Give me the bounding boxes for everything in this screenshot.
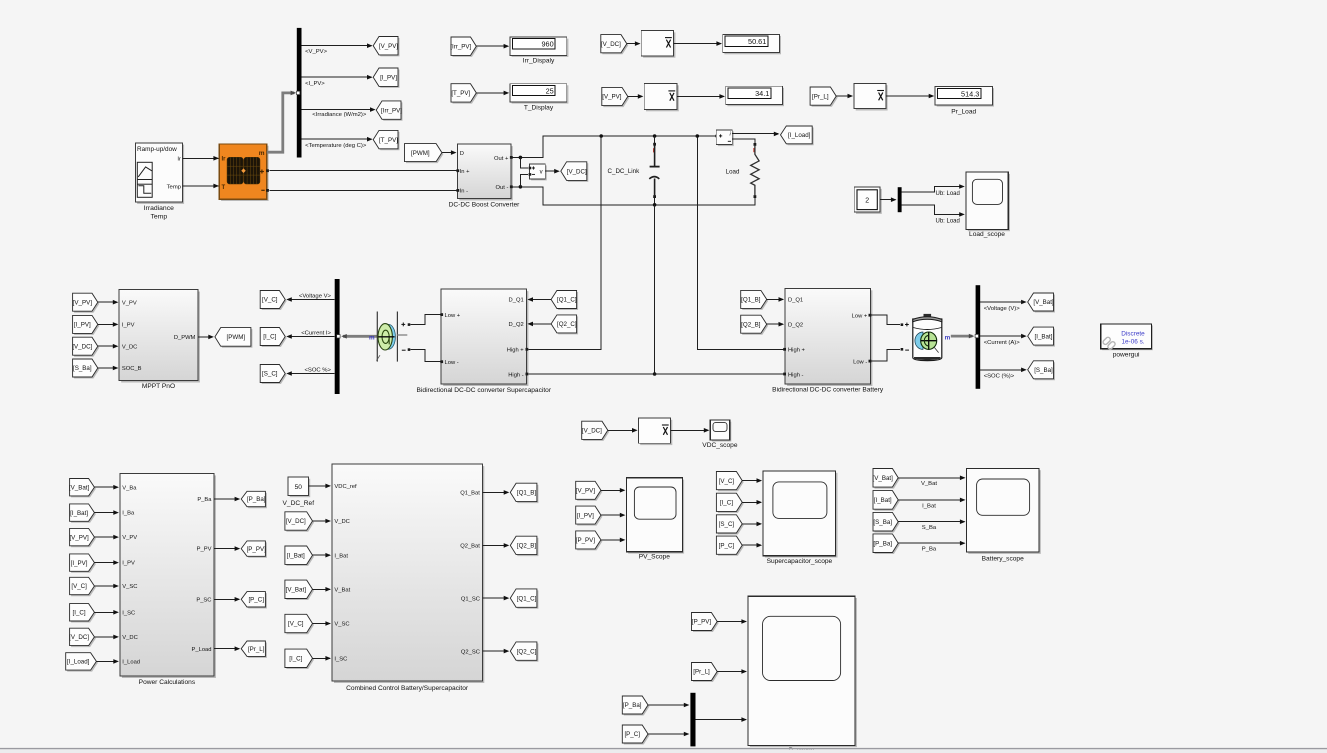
constant 50 V_DC_Ref <box>283 477 315 507</box>
svg-text:[I_Load]: [I_Load] <box>788 132 811 139</box>
from tag [S_C] to Supercapacitor_scope <box>716 515 743 535</box>
from tag [I_Bat] to Power Calculations <box>70 504 96 523</box>
svg-text:<Irradiance (W/m2)>: <Irradiance (W/m2)> <box>312 112 367 118</box>
wire Q1_C to D_Q1 <box>527 297 551 302</box>
wire Temp to PV array <box>182 184 219 189</box>
svg-text:[V_DC]: [V_DC] <box>69 634 89 641</box>
mux P_Ba P_C <box>690 693 695 747</box>
wire <box>482 543 509 548</box>
svg-text:50: 50 <box>295 484 303 491</box>
from tag [I_PV] to PV_Scope <box>576 506 603 525</box>
from tag [I_C] to Supercapacitor_scope <box>716 493 743 513</box>
svg-text:D_Q2: D_Q2 <box>509 322 524 328</box>
svg-text:V_SC: V_SC <box>122 584 137 590</box>
block DC-DC Boost Converter <box>449 144 521 208</box>
wire <box>94 610 119 615</box>
svg-text:Temp: Temp <box>167 184 182 190</box>
wire <box>98 366 119 371</box>
wire <box>94 485 119 490</box>
svg-text:[T_PV]: [T_PV] <box>379 137 398 144</box>
svg-text:<I_PV>: <I_PV> <box>305 81 325 87</box>
svg-text:[Pr_L]: [Pr_L] <box>812 93 829 100</box>
svg-text:[P_C]: [P_C] <box>248 597 264 604</box>
goto tag [Q1_C] <box>510 589 538 609</box>
svg-text:Out -: Out - <box>496 185 509 191</box>
from tag [Q1_C] <box>551 291 578 311</box>
svg-text:Out +: Out + <box>494 156 509 162</box>
svg-text:DC-DC Boost Converter: DC-DC Boost Converter <box>449 201 521 208</box>
svg-text:Irradiance: Irradiance <box>144 205 174 212</box>
goto tag [S_Ba] <box>1028 361 1055 381</box>
svg-text:[I_C]: [I_C] <box>720 500 733 507</box>
wire to mean <box>627 41 641 46</box>
svg-text:[V_C]: [V_C] <box>71 583 87 590</box>
from tag [P_PV] to P_scope <box>692 613 719 633</box>
svg-text:[P_C]: [P_C] <box>624 731 640 738</box>
svg-text:[I_C]: [I_C] <box>289 656 302 663</box>
goto tag [V_C] <box>260 291 287 311</box>
wire PWM to D input <box>442 150 457 155</box>
svg-text:Bidirectional DC-DC converter: Bidirectional DC-DC converter Battery <box>772 387 884 394</box>
supercap - terminal <box>402 348 411 351</box>
from tag [S_Ba] to Battery_scope <box>873 512 900 532</box>
svg-text:m: m <box>369 335 375 342</box>
svg-text:S_Ba: S_Ba <box>922 525 937 531</box>
wire <box>313 656 332 661</box>
from tag [I_C] to Power Calculations <box>70 604 96 623</box>
goto tag [Q2_B] <box>510 536 538 556</box>
wire <box>482 596 509 601</box>
svg-text:I_SC: I_SC <box>334 657 347 663</box>
svg-text:[V_PV]: [V_PV] <box>69 534 89 541</box>
block Power Calculations <box>120 473 216 686</box>
wire bus to S_Ba goto <box>980 368 1026 380</box>
goto tag [P_Ba] <box>241 491 267 508</box>
svg-text:High +: High + <box>788 348 806 354</box>
svg-text:V_DC: V_DC <box>334 519 349 525</box>
svg-text:[S_C]: [S_C] <box>262 371 278 378</box>
wire current sensor to load resistor <box>732 139 755 143</box>
svg-text:[Pr_L]: [Pr_L] <box>248 646 265 653</box>
svg-text:Q1_Bat: Q1_Bat <box>460 491 480 497</box>
svg-text:High +: High + <box>507 348 525 354</box>
svg-text:SOC_B: SOC_B <box>122 366 142 372</box>
supercap + terminal <box>401 323 410 327</box>
svg-text:514.3: 514.3 <box>961 89 979 98</box>
svg-text:[Q2_B]: [Q2_B] <box>517 543 537 550</box>
wire <box>94 584 119 589</box>
svg-text:VDC_scope: VDC_scope <box>702 442 738 449</box>
wire supercap - to Low- <box>410 350 440 362</box>
svg-text:V_PV: V_PV <box>122 300 137 306</box>
wire battery Low+ to battery + <box>871 315 900 325</box>
wire Out- to DC bus bottom rail <box>513 185 756 205</box>
wire battery High+ to DC bus <box>696 134 785 349</box>
svg-text:[P_PV]: [P_PV] <box>247 546 267 553</box>
wire bus to T_PV goto <box>302 137 373 149</box>
svg-text:V_SC: V_SC <box>334 622 349 628</box>
wire <box>717 669 747 674</box>
svg-text:[I_C]: [I_C] <box>263 334 276 341</box>
wire to T display <box>476 91 509 96</box>
wire to Irr display <box>476 44 509 49</box>
scope Supercapacitor_scope <box>763 471 837 565</box>
svg-text:[Q1_C]: [Q1_C] <box>517 595 537 602</box>
svg-text:[Irr_PV]: [Irr_PV] <box>381 107 402 114</box>
from tag [V_Bat] to Power Calculations <box>69 479 96 498</box>
from tag [V_PV] mean row <box>602 87 630 107</box>
wire demux to Load_scope input 1 <box>902 184 965 197</box>
svg-text:[V_PV]: [V_PV] <box>379 43 399 50</box>
svg-text:<SOC (%)>: <SOC (%)> <box>984 374 1015 380</box>
from tag [PWM] <box>405 144 444 164</box>
wire S_Ba <box>898 519 965 531</box>
svg-text:[S_Ba]: [S_Ba] <box>873 519 892 526</box>
from tag [V_DC] to Power Calculations <box>69 628 96 647</box>
from tag [P_C] to Supercapacitor_scope <box>716 536 743 556</box>
svg-text:[V_Bat]: [V_Bat] <box>286 587 307 594</box>
wire V_Bat <box>898 476 965 488</box>
svg-text:[V_PV]: [V_PV] <box>602 94 622 101</box>
wire bus to V_Bat goto <box>980 300 1026 312</box>
svg-text:Pr_Load: Pr_Load <box>951 109 976 116</box>
wire DC link down to High- line <box>653 205 657 376</box>
from tag [V_C] to Combined Control <box>285 614 314 634</box>
bus wire supercapacitor m to bus selector <box>341 334 377 342</box>
from tag [Q2_B] <box>741 315 769 335</box>
wire Q1_B to D_Q1 <box>767 297 784 302</box>
svg-text:V_DC: V_DC <box>122 344 137 350</box>
svg-text:Low -: Low - <box>853 359 867 365</box>
svg-text:V_DC: V_DC <box>122 635 137 641</box>
wire <box>214 497 240 502</box>
svg-text:[I_Bat]: [I_Bat] <box>874 497 892 504</box>
svg-text:[P_Ba]: [P_Ba] <box>873 540 892 547</box>
svg-text:I_PV: I_PV <box>122 323 135 329</box>
wire bus to V_C <box>286 293 335 301</box>
from tag [V_DC] to MPPT <box>72 337 99 357</box>
wire branch to voltage sensor + <box>520 157 528 168</box>
wire High- line between converters <box>528 373 783 375</box>
svg-text:D: D <box>460 151 464 157</box>
svg-text:In -: In - <box>460 189 468 195</box>
svg-text:<Voltage V>: <Voltage V> <box>299 293 332 299</box>
svg-text:Ramp-up/dow: Ramp-up/dow <box>137 146 177 153</box>
wire mean to display <box>677 94 725 99</box>
svg-text:[S_Ba]: [S_Ba] <box>73 365 92 372</box>
svg-text:In +: In + <box>460 169 470 175</box>
svg-text:[V_PV]: [V_PV] <box>576 488 596 495</box>
wire to mean <box>608 428 638 433</box>
scope Load_scope <box>966 172 1010 238</box>
mean block Pr_Load <box>854 83 888 110</box>
wire demux to Load_scope input 2 <box>902 205 965 225</box>
svg-text:V_PV: V_PV <box>122 535 137 541</box>
from tag [V_PV] to MPPT <box>73 293 100 313</box>
block MPPT PnO <box>119 290 200 391</box>
wire I_Bat <box>898 498 965 510</box>
wire bus to I_PV goto <box>302 75 373 87</box>
svg-text:[P_PV]: [P_PV] <box>692 619 712 626</box>
svg-text:[T_PV]: [T_PV] <box>451 90 470 97</box>
scope P_scope <box>748 596 857 753</box>
svg-text:[V_C]: [V_C] <box>262 297 278 304</box>
bottom window edge <box>0 749 1327 753</box>
svg-text:25: 25 <box>546 86 554 95</box>
from tag [V_PV] to PV_Scope <box>576 481 603 501</box>
wire <box>94 510 119 515</box>
bus wire battery m to bus selector <box>951 334 975 339</box>
svg-text:High -: High - <box>788 372 804 378</box>
svg-text:Low +: Low + <box>852 314 868 320</box>
wire mux to P_scope <box>696 717 748 722</box>
battery <box>913 314 951 361</box>
wire mean to scope <box>671 428 710 433</box>
wire bus to S_C <box>286 367 335 375</box>
svg-text:[I_PV]: [I_PV] <box>71 560 88 567</box>
wire voltage sensor to V_DC goto <box>545 169 560 174</box>
from tag [Pr_L] mean row <box>810 87 838 107</box>
svg-text:I_PV: I_PV <box>122 561 135 567</box>
svg-text:Q2_Bat: Q2_Bat <box>460 544 480 550</box>
goto tag [I_Bat] <box>1028 327 1055 347</box>
svg-text:I_Bat: I_Bat <box>922 503 936 509</box>
bus selector supercapacitor measurements <box>335 279 340 394</box>
svg-text:Ir: Ir <box>222 157 227 163</box>
svg-text:D_Q1: D_Q1 <box>788 297 803 303</box>
svg-text:<SOC %>: <SOC %> <box>304 367 331 373</box>
wire <box>601 513 626 518</box>
svg-text:Irr_Dispaly: Irr_Dispaly <box>523 58 555 65</box>
svg-text:[I_Load]: [I_Load] <box>67 659 90 666</box>
from tag [Q1_B] <box>741 290 769 310</box>
svg-text:MPPT PnO: MPPT PnO <box>142 383 175 390</box>
svg-text:<Voltage (V)>: <Voltage (V)> <box>984 306 1021 312</box>
svg-text:P_PV: P_PV <box>197 547 212 553</box>
svg-text:[V_DC]: [V_DC] <box>582 428 602 435</box>
svg-text:[V_C]: [V_C] <box>719 478 735 485</box>
svg-text:2: 2 <box>865 197 869 204</box>
svg-text:[V_Bat]: [V_Bat] <box>69 484 90 491</box>
wire <box>601 488 626 493</box>
svg-text:m: m <box>259 150 265 157</box>
from tag [P_Ba] to mux <box>622 696 649 716</box>
wire <box>648 732 689 737</box>
svg-text:[V_DC]: [V_DC] <box>601 41 621 48</box>
wire <box>482 490 509 495</box>
from tag [P_Ba] to Battery_scope <box>873 534 900 554</box>
goto tag [Q2_C] <box>510 642 538 662</box>
scope Battery_scope <box>967 468 1041 562</box>
wire PV- to In- <box>269 189 457 191</box>
svg-text:Power Calculations: Power Calculations <box>139 679 196 686</box>
svg-text:[Pr_L]: [Pr_L] <box>693 669 710 676</box>
goto tag [I_PV] <box>373 68 399 88</box>
goto tag [V_Bat] <box>1028 293 1055 313</box>
PV Array block <box>219 144 269 201</box>
svg-text:[V_DC]: [V_DC] <box>567 168 587 175</box>
wire P_Ba <box>898 541 965 553</box>
from tag [V_Bat] to Combined Control <box>285 580 314 600</box>
wire <box>482 649 509 654</box>
wire <box>742 522 762 527</box>
wire PV+ to In+ <box>269 170 457 172</box>
svg-text:Supercapacitor_scope: Supercapacitor_scope <box>767 558 833 565</box>
current sensor I_Load <box>715 130 734 146</box>
battery + terminal <box>901 323 909 327</box>
demux <box>898 187 902 212</box>
wire <box>98 300 119 305</box>
svg-text:[Q1_B]: [Q1_B] <box>741 297 761 304</box>
svg-text:V_Ba: V_Ba <box>122 485 137 491</box>
svg-text:V_DC_Ref: V_DC_Ref <box>283 500 315 507</box>
svg-text:Q1_SC: Q1_SC <box>461 596 480 602</box>
svg-text:[P_Ba]: [P_Ba] <box>247 496 266 503</box>
svg-text:34.1: 34.1 <box>755 89 769 98</box>
from tag [V_Bat] to Battery_scope <box>873 469 900 489</box>
svg-text:[P_PV]: [P_PV] <box>576 537 596 544</box>
from tag [I_PV] to MPPT <box>73 315 100 335</box>
from tag [P_PV] to PV_Scope <box>576 531 603 551</box>
wire <box>94 535 119 540</box>
scope VDC_scope <box>702 420 738 449</box>
svg-text:[PWM]: [PWM] <box>411 150 430 157</box>
svg-text:powergui: powergui <box>1113 352 1140 359</box>
wire branch to voltage sensor - <box>520 174 528 186</box>
svg-text:[V_Bat]: [V_Bat] <box>873 475 894 482</box>
wire Q2_B to D_Q2 <box>767 322 784 327</box>
goto tag [PWM] <box>215 328 253 348</box>
goto tag [Q1_B] <box>510 483 538 503</box>
wire <box>648 703 689 708</box>
junction dot bottom rail <box>653 203 657 207</box>
block Combined Control Battery/Supercapacitor <box>332 464 484 692</box>
svg-text:Battery_scope: Battery_scope <box>982 555 1024 562</box>
wire to mean <box>628 94 644 99</box>
goto tag [V_PV] <box>373 37 399 57</box>
svg-text:I_SC: I_SC <box>122 610 135 616</box>
svg-text:[P_Ba]: [P_Ba] <box>623 702 642 709</box>
wire <box>96 659 119 664</box>
wire Q2_C to D_Q2 <box>527 322 551 327</box>
wire bus to Irr_PV goto <box>302 107 376 118</box>
goto tag [V_DC] <box>561 162 589 182</box>
from tag [I_Load] to Power Calculations <box>66 653 98 672</box>
wire to mean <box>836 94 853 99</box>
from tag [I_Bat] to Battery_scope <box>873 491 900 511</box>
wire D_PWM to PWM goto <box>198 335 214 340</box>
source block Irradiance Temp (Ramp-up/down) <box>135 143 184 204</box>
svg-text:Combined Control Battery/Super: Combined Control Battery/Supercapacitor <box>346 685 469 692</box>
svg-text:[V_PV]: [V_PV] <box>73 299 93 306</box>
resistor Load <box>726 143 759 205</box>
svg-text:[V_DC]: [V_DC] <box>72 343 92 350</box>
svg-text:I_Load: I_Load <box>122 660 140 666</box>
svg-text:[Q1_B]: [Q1_B] <box>517 490 537 497</box>
mean block VDC <box>638 418 672 445</box>
svg-text:v: v <box>540 170 543 176</box>
wire <box>94 635 119 640</box>
display value 50.61 <box>723 34 781 54</box>
goto tag [P_C] <box>241 592 267 609</box>
svg-text:[V_C]: [V_C] <box>288 621 304 628</box>
svg-text:[Q2_C]: [Q2_C] <box>517 648 537 655</box>
wire <box>214 546 240 551</box>
svg-text:Q2_SC: Q2_SC <box>461 649 480 655</box>
goto tag [T_PV] <box>373 130 399 150</box>
wire <box>94 560 119 565</box>
goto tag [I_C] <box>260 328 287 348</box>
svg-text:[P_C]: [P_C] <box>719 542 735 549</box>
svg-text:Bidirectional DC-DC converter: Bidirectional DC-DC converter Supercapac… <box>417 387 552 394</box>
svg-text:C_DC_Link: C_DC_Link <box>608 168 641 175</box>
wire Ir to PV array <box>182 156 219 161</box>
wire current sensor to I_Load goto <box>732 132 779 137</box>
svg-text:[Q2_C]: [Q2_C] <box>557 321 577 328</box>
svg-text:960: 960 <box>542 40 554 49</box>
svg-text:V_Bat: V_Bat <box>334 588 350 594</box>
svg-text:[S_Ba]: [S_Ba] <box>1034 367 1053 374</box>
svg-text:50.61: 50.61 <box>748 37 766 46</box>
wire <box>214 597 240 602</box>
svg-text:[I_Bat]: [I_Bat] <box>287 552 305 559</box>
svg-text:Ir: Ir <box>177 157 181 163</box>
bus selector PV measurements <box>297 28 302 158</box>
svg-text:High -: High - <box>508 372 524 378</box>
svg-text:Ub: Load: Ub: Load <box>936 219 960 225</box>
block Bidirectional DC-DC converter Battery <box>772 288 884 393</box>
svg-text:[I_Bat]: [I_Bat] <box>70 510 88 517</box>
svg-text:m: m <box>945 334 951 341</box>
svg-text:D_Q1: D_Q1 <box>509 297 524 303</box>
wire bus to V_PV goto <box>302 43 373 55</box>
wire bus to I_C <box>286 330 335 338</box>
wire bus to I_Bat goto <box>980 334 1026 346</box>
svg-text:D_Q2: D_Q2 <box>788 322 803 328</box>
from tag [T_PV] <box>451 84 478 104</box>
from tag [P_C] to mux <box>622 725 649 745</box>
svg-text:P_SC: P_SC <box>196 597 211 603</box>
svg-text:[I_PV]: [I_PV] <box>577 512 594 519</box>
wire mean to display <box>886 94 935 99</box>
goto tag [Pr_L] <box>241 641 267 658</box>
goto tag [Irr_PV] <box>376 101 402 121</box>
wire constant to demux <box>880 197 896 202</box>
svg-text:Low +: Low + <box>445 313 461 319</box>
battery - terminal <box>901 348 909 351</box>
svg-text:P_Ba: P_Ba <box>197 497 212 503</box>
from tag [V_PV] to Power Calculations <box>69 528 95 547</box>
from tag [Pr_L] to P_scope <box>692 663 719 683</box>
wire <box>601 538 626 543</box>
svg-text:[PWM]: [PWM] <box>227 334 246 341</box>
display Pr_Load value 514.3 <box>935 87 994 116</box>
svg-text:Load_scope: Load_scope <box>969 231 1005 238</box>
svg-text:T_Display: T_Display <box>524 104 554 111</box>
svg-text:[I_Bat]: [I_Bat] <box>1035 333 1053 340</box>
display Irr_Dispaly value 960 <box>510 37 568 65</box>
svg-text:PV_Scope: PV_Scope <box>639 554 670 561</box>
wire <box>214 646 240 651</box>
wire <box>742 500 762 505</box>
wire <box>313 621 332 626</box>
svg-text:T: T <box>222 185 226 191</box>
svg-text:P_Load: P_Load <box>192 647 212 653</box>
goto tag [I_Load] <box>781 126 814 145</box>
svg-text:Ub: Load: Ub: Load <box>936 191 960 197</box>
display T_Display value 25 <box>510 84 568 112</box>
from tag [V_DC] vdc scope row <box>582 421 610 441</box>
